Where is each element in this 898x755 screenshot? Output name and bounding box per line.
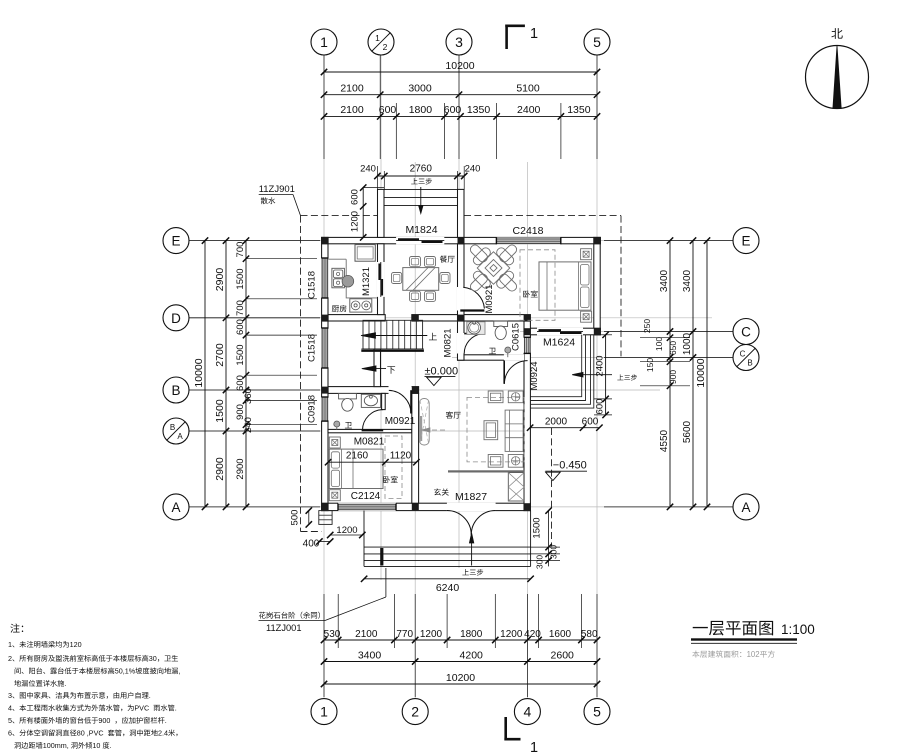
door M1321 opening <box>377 262 385 297</box>
svg-text:2: 2 <box>411 704 419 720</box>
svg-text:B: B <box>747 359 752 368</box>
svg-text:1: 1 <box>375 33 380 43</box>
porch left wall <box>378 189 385 237</box>
svg-text:1350: 1350 <box>467 104 491 116</box>
dim 1500/300/300 right of steps <box>548 511 550 567</box>
wall C bedroom south <box>524 328 600 335</box>
svg-text:1: 1 <box>8 640 12 649</box>
room label 客厅 <box>446 411 461 418</box>
svg-text:10200: 10200 <box>445 60 474 72</box>
porch steps <box>384 188 458 190</box>
svg-text:700: 700 <box>235 300 246 316</box>
shoe cabinet line <box>448 470 524 472</box>
door M0821 mid bath leaf+arc <box>464 333 481 335</box>
window C2418 hatch <box>496 238 560 244</box>
svg-text:2900: 2900 <box>235 458 246 479</box>
axis circle B left <box>163 377 189 403</box>
svg-text:100: 100 <box>654 337 664 351</box>
svg-text:50,1%: 50,1% <box>115 667 136 676</box>
svg-text:2900: 2900 <box>214 457 226 481</box>
kitchen fridge <box>355 245 375 262</box>
svg-text:B: B <box>171 383 180 398</box>
room label 玄关 <box>434 488 449 495</box>
living room rug dashed <box>467 397 524 462</box>
mid bath floor drain <box>505 347 511 353</box>
door M0921 lower bath opening <box>389 386 412 394</box>
round table group bedroom <box>450 225 537 312</box>
svg-text:5100: 5100 <box>516 83 540 95</box>
svg-text:1500: 1500 <box>235 344 246 365</box>
svg-text:900: 900 <box>98 716 110 725</box>
svg-text:770: 770 <box>396 629 413 640</box>
svg-text:1800: 1800 <box>460 629 483 640</box>
lower bedroom dashed wardrobe <box>385 436 402 499</box>
lower bath sink <box>361 394 380 407</box>
svg-text:PVC: PVC <box>134 704 149 713</box>
label C0918 <box>307 395 318 423</box>
bottom dimension line 10200 <box>324 683 597 685</box>
bedroom dashed wardrobe <box>520 250 555 320</box>
axis circle E right <box>733 228 759 254</box>
svg-text:3400: 3400 <box>358 650 382 662</box>
svg-text:1600: 1600 <box>549 629 572 640</box>
room label 卧室 lower left <box>383 476 397 483</box>
svg-text:700: 700 <box>235 242 246 258</box>
svg-text:A: A <box>171 500 180 515</box>
bottom extension lines <box>323 594 325 648</box>
wall 4 vertical <box>524 321 530 511</box>
side table south <box>508 455 523 468</box>
dim 1500 below A right <box>542 511 544 551</box>
wall half vertical kitchen/dining <box>378 244 385 315</box>
axis circle B/A left <box>163 418 189 444</box>
svg-text:2.4: 2.4 <box>158 729 168 738</box>
side steps SW <box>319 511 332 525</box>
axis circle 2 bottom <box>402 699 428 725</box>
label C0615 <box>511 323 522 351</box>
wall 3 vertical <box>458 244 465 360</box>
svg-text:C: C <box>741 325 751 340</box>
svg-text:30: 30 <box>149 654 157 663</box>
door M0921 bedroom opening <box>457 287 465 311</box>
svg-text:2160: 2160 <box>346 451 369 462</box>
svg-text:3400: 3400 <box>682 269 693 292</box>
wall BA interior <box>328 429 412 432</box>
svg-text:6: 6 <box>8 729 12 738</box>
svg-text:1: 1 <box>320 704 328 720</box>
svg-text:5600: 5600 <box>682 420 693 443</box>
svg-text:1200: 1200 <box>336 525 357 536</box>
axis circle D left <box>163 305 189 331</box>
left extension lines <box>246 258 317 260</box>
top extension lines <box>323 56 325 160</box>
wall D bathroom <box>412 315 531 321</box>
bed top right <box>539 262 591 310</box>
window C2124 hatch <box>338 504 396 510</box>
svg-text:11ZJ001: 11ZJ001 <box>266 623 302 633</box>
top dimension line 2100/600/1800/600/1350/2400/1350 <box>324 115 597 117</box>
axis circle C/B right <box>733 345 759 371</box>
dim 500 SW <box>308 511 310 525</box>
svg-text:3: 3 <box>455 34 463 50</box>
svg-text:4200: 4200 <box>460 650 484 662</box>
right axis leader lines <box>604 240 733 242</box>
right dimension line 3400/250/650/100/150/900/4550 <box>669 241 671 507</box>
window C1518 kitchen hatch <box>322 258 328 298</box>
window C0615 hatch <box>525 337 531 353</box>
svg-text:2000: 2000 <box>545 416 568 427</box>
svg-text:1:100: 1:100 <box>781 622 815 637</box>
eave dashed outline <box>301 215 378 217</box>
svg-text:B: B <box>170 423 175 432</box>
sofa long <box>505 410 523 451</box>
door M0921 bedroom leaf+arc <box>460 309 484 311</box>
door M0821 mid bath opening <box>457 333 465 354</box>
window C0918 bath <box>321 397 328 421</box>
notes title 注 <box>10 624 19 633</box>
axis circle A left <box>163 494 189 520</box>
north arrow <box>806 46 869 109</box>
axis circle C right <box>733 319 759 345</box>
svg-text:3: 3 <box>8 691 12 700</box>
room label 餐厅 <box>440 255 455 262</box>
svg-text:M0821: M0821 <box>354 436 385 447</box>
svg-text:240: 240 <box>465 164 481 175</box>
mid bath label 卫 <box>489 348 496 354</box>
svg-text:300: 300 <box>535 555 545 569</box>
svg-text:1500: 1500 <box>235 268 246 289</box>
svg-text:360: 360 <box>243 388 254 404</box>
drawing title 一层平面图 1:100 <box>693 621 773 636</box>
svg-text:2400: 2400 <box>595 355 606 376</box>
svg-text:10200: 10200 <box>446 672 475 684</box>
bed lower left <box>329 449 383 488</box>
svg-text:2760: 2760 <box>410 164 433 175</box>
svg-text:1350: 1350 <box>567 104 591 116</box>
wall D kitchen <box>328 315 385 321</box>
svg-text:,: , <box>178 667 180 676</box>
svg-text:120: 120 <box>70 640 82 649</box>
svg-text:C2418: C2418 <box>513 225 544 237</box>
right dimension line 10000 <box>706 241 708 507</box>
svg-text:900: 900 <box>668 370 678 384</box>
svg-text:5: 5 <box>593 704 601 720</box>
window C0918 hatch <box>322 397 328 421</box>
wall exterior top E <box>322 237 601 243</box>
svg-text:C1518: C1518 <box>307 271 318 299</box>
svg-text:1: 1 <box>530 26 538 42</box>
hall dashed arrow <box>424 429 448 431</box>
svg-text:±0.000: ±0.000 <box>425 365 459 377</box>
svg-text:4: 4 <box>524 704 532 720</box>
axis circle 1 bottom <box>311 699 337 725</box>
lower bath label 卫 <box>345 422 352 428</box>
porch right wall <box>458 189 465 237</box>
terrace label 上三步 <box>617 374 637 380</box>
svg-text:1: 1 <box>530 740 538 755</box>
door M1827 double leaf arcs <box>447 511 471 535</box>
left dimension line 10000 <box>204 241 206 507</box>
svg-text:1500: 1500 <box>214 399 226 423</box>
lower bath floor drain <box>334 421 340 427</box>
svg-text:.: . <box>64 679 66 688</box>
terrace steps <box>530 335 581 397</box>
bedside table NW <box>329 437 340 448</box>
svg-text:2700: 2700 <box>214 343 226 367</box>
svg-text:2600: 2600 <box>551 650 575 662</box>
dining table <box>403 268 439 291</box>
wall CB bathroom south <box>458 355 531 360</box>
wall exterior left 1 <box>322 237 328 510</box>
svg-text:C: C <box>740 350 746 359</box>
left axis leader lines <box>189 240 320 242</box>
label C1518 kitchen <box>307 271 318 299</box>
axis grid lines <box>323 55 325 698</box>
svg-text:M0921: M0921 <box>385 416 416 427</box>
bottom dimension line 530/2100/770/1200/1800/1200/420/1600/580 <box>324 639 597 641</box>
right dimension line 3400/1000/5600 <box>692 241 694 507</box>
kitchen stove <box>350 299 372 312</box>
svg-text:M0821: M0821 <box>443 328 454 357</box>
entrance label 上三步 <box>462 569 483 576</box>
svg-text:M0924: M0924 <box>529 361 540 390</box>
wall exterior right 5 <box>594 237 600 334</box>
svg-text:1200: 1200 <box>350 211 361 232</box>
svg-text:4: 4 <box>8 704 12 713</box>
svg-text:.: . <box>165 716 167 725</box>
svg-text:10: 10 <box>92 741 100 750</box>
window C1518 kitchen <box>321 258 328 298</box>
svg-text:600: 600 <box>350 189 361 205</box>
axis circle 5 top <box>584 29 610 55</box>
porch label 上三步 <box>411 178 432 185</box>
window C2418 <box>496 237 560 244</box>
dim 2000/600 right <box>530 427 599 429</box>
door M0924 leaf+arc <box>503 360 505 383</box>
svg-text:11ZJ901: 11ZJ901 <box>259 184 295 195</box>
svg-text:580: 580 <box>581 629 598 640</box>
porch dim 600/1200 <box>362 188 364 238</box>
svg-text:1120: 1120 <box>390 451 412 462</box>
terrace entry arrow <box>575 374 613 376</box>
svg-text:6240: 6240 <box>436 582 460 594</box>
section mark 1 top <box>505 25 508 50</box>
coffee table <box>484 421 498 440</box>
svg-text:2100: 2100 <box>340 104 364 116</box>
axis circle E left <box>163 228 189 254</box>
svg-text:A: A <box>741 500 750 515</box>
svg-text:250: 250 <box>642 319 652 333</box>
svg-text:10000: 10000 <box>193 358 205 387</box>
label M0821 mid bath <box>443 328 454 357</box>
svg-text:2: 2 <box>383 42 388 52</box>
svg-text:2100: 2100 <box>340 83 364 95</box>
svg-text:5: 5 <box>593 34 601 50</box>
bottom dimension line 3400/4200/2600 <box>324 661 597 663</box>
note granite steps <box>259 612 320 619</box>
side table north <box>508 391 523 403</box>
entrance steps granite <box>363 511 365 567</box>
svg-text:1800: 1800 <box>409 104 433 116</box>
mid bath sink <box>467 322 485 335</box>
svg-text:2: 2 <box>8 654 12 663</box>
wall 2 vertical <box>412 393 419 503</box>
door M0924 opening <box>504 354 524 361</box>
door M1827 opening <box>447 503 496 512</box>
section mark 1 bottom <box>504 717 507 741</box>
window C0615 <box>524 337 531 353</box>
svg-text:600: 600 <box>379 104 397 116</box>
window C2124 <box>338 503 396 511</box>
stairs down arrow <box>364 368 386 370</box>
svg-text:500: 500 <box>290 510 301 526</box>
terrace dim 2400/600 right <box>605 335 607 415</box>
svg-text:M1827: M1827 <box>455 491 487 503</box>
svg-text:2100: 2100 <box>355 629 378 640</box>
svg-text:C1518: C1518 <box>307 334 318 362</box>
door M1824 opening sliding <box>396 237 444 245</box>
subtitle area <box>692 650 699 657</box>
bedside table NE <box>581 249 592 260</box>
stairs <box>363 320 423 349</box>
axis circle 5 bottom <box>584 699 610 725</box>
stairs up arrow <box>364 335 428 337</box>
svg-text:150: 150 <box>645 358 655 372</box>
svg-text:4550: 4550 <box>659 429 670 452</box>
window C1518 stair <box>321 328 328 368</box>
svg-text:D: D <box>171 311 181 326</box>
svg-text:1000: 1000 <box>682 332 693 355</box>
svg-text:C2124: C2124 <box>351 491 381 502</box>
svg-text:.: . <box>110 741 112 750</box>
label M0921 bedroom <box>484 284 495 313</box>
mid bath toilet <box>494 321 508 327</box>
tv cabinet <box>419 399 429 446</box>
svg-text:100mm,: 100mm, <box>43 741 69 750</box>
svg-text:10000: 10000 <box>695 358 707 387</box>
svg-text:.: . <box>175 704 177 713</box>
svg-text:102: 102 <box>747 650 760 659</box>
wall bottom A <box>322 503 531 510</box>
sofa single south <box>488 455 503 468</box>
axis circle 3 top <box>446 29 472 55</box>
svg-text:M1321: M1321 <box>361 267 372 296</box>
dim 1200 SW <box>330 534 362 536</box>
svg-text:E: E <box>741 234 750 249</box>
axis circle A right <box>733 494 759 520</box>
sofa single north <box>488 391 503 403</box>
svg-text:2900: 2900 <box>214 268 226 292</box>
left dimension line 2900/2700/1500/2900 <box>225 241 227 507</box>
svg-text:240: 240 <box>360 164 376 175</box>
decor x-box <box>508 473 524 502</box>
svg-text:5: 5 <box>8 716 12 725</box>
svg-text:.: . <box>149 691 151 700</box>
kitchen counter <box>346 259 377 298</box>
stair half wall <box>374 349 381 387</box>
top dimension line 2100/3000/5100 <box>324 94 597 96</box>
bathroom east stub wall <box>382 393 386 409</box>
structural columns <box>322 237 329 244</box>
svg-text:M1624: M1624 <box>543 336 575 348</box>
left dimension line 700/1500/700/600/1500/600/360/900/240/2900 <box>245 241 247 507</box>
svg-text:C0918: C0918 <box>307 395 318 423</box>
svg-text:2400: 2400 <box>517 104 541 116</box>
svg-text:80 ,PVC: 80 ,PVC <box>77 729 104 738</box>
porch dim 240/2760/240 <box>377 175 464 177</box>
svg-text:C0615: C0615 <box>511 323 522 351</box>
svg-text:A: A <box>177 432 183 441</box>
window C1518 stair hatch <box>322 328 328 368</box>
porch down arrow <box>420 187 422 212</box>
svg-text:3400: 3400 <box>659 269 670 292</box>
room label 厨房 <box>332 305 347 312</box>
svg-text:E: E <box>171 234 180 249</box>
door M0921 lower bath leaf+arc <box>410 390 412 413</box>
svg-text:600: 600 <box>235 319 246 335</box>
kitchen sink <box>332 268 345 288</box>
svg-text:3000: 3000 <box>408 83 432 95</box>
top dimension line 10200 <box>324 71 597 73</box>
entrance up arrow <box>471 537 473 566</box>
svg-text:M1824: M1824 <box>405 224 437 236</box>
svg-text:1500: 1500 <box>532 517 543 538</box>
axis circle 4 bottom <box>514 699 540 725</box>
svg-text:M0921: M0921 <box>484 284 495 313</box>
svg-text:650: 650 <box>668 341 678 355</box>
dim 6240 <box>364 578 530 580</box>
lower bath toilet <box>339 394 357 399</box>
door M0821 vestibule leaf+arc <box>362 429 384 431</box>
door M1624 opening sliding <box>537 328 583 336</box>
svg-text:−0.450: −0.450 <box>553 459 587 471</box>
wall B <box>328 387 419 394</box>
bedside table SE <box>581 311 592 322</box>
label M0924 <box>529 361 540 390</box>
svg-text:1: 1 <box>320 34 328 50</box>
dining chairs <box>410 257 421 267</box>
axis circle 1/2 top <box>368 29 394 55</box>
right extension lines <box>640 337 690 339</box>
room label 卧室 top right <box>523 290 537 297</box>
svg-text:600: 600 <box>595 399 606 415</box>
svg-text:600: 600 <box>582 416 599 427</box>
label M1321 <box>361 267 372 296</box>
bedside table SW <box>329 490 340 501</box>
svg-text:1200: 1200 <box>500 629 523 640</box>
label C1518 stair <box>307 334 318 362</box>
svg-text:1200: 1200 <box>420 629 443 640</box>
axis circle 1 top <box>311 29 337 55</box>
lower bedroom dim 2160/1120 <box>328 461 416 463</box>
